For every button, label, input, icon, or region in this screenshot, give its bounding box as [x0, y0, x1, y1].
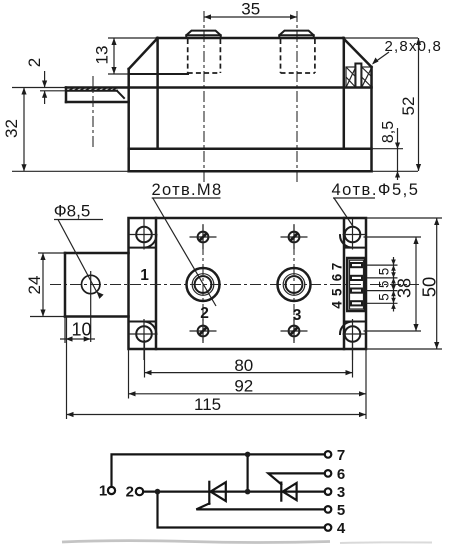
thyristor VS1	[209, 482, 226, 504]
right flange line	[343, 218, 346, 349]
svg-text:1: 1	[140, 267, 149, 284]
svg-text:3: 3	[293, 307, 302, 324]
pin 4 (top view)	[351, 301, 362, 305]
svg-text:1: 1	[99, 483, 107, 500]
terminal 3	[325, 484, 345, 501]
pin 5 (top view)	[351, 289, 362, 293]
svg-text:38: 38	[395, 278, 415, 298]
thyristor VS2	[281, 483, 296, 501]
svg-text:4отв.Ф5,5: 4отв.Ф5,5	[332, 181, 420, 199]
right chamfer	[343, 38, 372, 149]
mounting hole bottom-left	[129, 319, 158, 360]
terminal tab 1 (side view)	[12, 88, 129, 103]
vertical centerline hole 2	[202, 224, 204, 344]
tab hole centerline (side view)	[92, 76, 94, 150]
svg-text:7: 7	[337, 447, 345, 464]
M8 terminal hole 3	[278, 268, 311, 301]
terminal 1	[99, 483, 115, 500]
terminal 6	[325, 466, 345, 483]
mounting hole top-right	[343, 219, 366, 250]
terminal 5	[325, 502, 345, 519]
control pin block (top view)	[347, 258, 365, 311]
centerline terminal 2	[203, 11, 205, 182]
node terminal 4 junction	[155, 489, 161, 495]
left chamfer	[129, 38, 158, 149]
pin 6 (top view)	[351, 276, 362, 280]
label Ф8,5 with leader	[54, 202, 104, 299]
dim 52	[399, 38, 421, 171]
svg-text:52: 52	[399, 97, 418, 116]
pin 7 (top view)	[351, 263, 362, 267]
module internal deck line	[129, 86, 372, 89]
node bus junction	[245, 489, 251, 495]
labels 4 5 6 7	[330, 263, 345, 309]
corner pad bottom-left	[129, 322, 157, 335]
svg-text:24: 24	[25, 276, 44, 295]
svg-text:115: 115	[194, 395, 221, 414]
wire gate VS2 to terminal 6	[268, 473, 324, 484]
svg-text:5: 5	[330, 288, 345, 296]
pin insulator left (hatched)	[346, 67, 356, 88]
label 1	[140, 267, 149, 284]
terminal 7	[325, 447, 345, 464]
tab hole Ф8,5	[82, 271, 100, 342]
label 2	[200, 305, 209, 322]
svg-text:4: 4	[330, 301, 345, 309]
corner pad bottom-right	[340, 322, 366, 335]
body top surface	[108, 37, 418, 40]
baseplate seam	[129, 147, 403, 150]
dim 80	[145, 340, 353, 378]
terminal 2	[126, 484, 144, 501]
svg-text:35: 35	[241, 0, 260, 19]
svg-text:5: 5	[377, 268, 392, 276]
label 2,8x0,8 with leader	[372, 38, 442, 65]
svg-text:5: 5	[337, 502, 345, 519]
wire terminal 4 branch	[158, 492, 325, 528]
svg-text:6: 6	[337, 466, 345, 483]
wire gate VS1 to terminal 5	[196, 503, 324, 509]
tab hatch marks	[69, 88, 117, 91]
dim 50	[366, 218, 442, 349]
aux pin bottom-right	[281, 319, 308, 343]
svg-text:5: 5	[377, 293, 392, 301]
svg-text:2: 2	[200, 305, 209, 322]
terminal tab 1 (top view)	[30, 253, 129, 317]
svg-text:92: 92	[234, 377, 253, 396]
horizontal centerline	[50, 284, 419, 286]
terminal 4	[325, 520, 346, 537]
svg-text:80: 80	[234, 356, 253, 375]
svg-text:8,5: 8,5	[380, 121, 397, 143]
label 2отв.М8 with leader	[152, 181, 223, 306]
dim 2 (tab thickness)	[25, 58, 47, 104]
corner pad top-right	[340, 235, 366, 248]
hidden hole terminal 3 (dashed)	[281, 39, 315, 73]
M8 terminal hole 2	[187, 268, 220, 301]
control pin (side view)	[355, 64, 361, 88]
svg-text:2: 2	[25, 58, 44, 67]
svg-text:3: 3	[337, 484, 345, 501]
body outline (top view)	[129, 218, 367, 349]
pin insulator right (hatched)	[362, 67, 372, 88]
terminal cap 2 (side view)	[186, 31, 220, 38]
shoulder ledge	[108, 73, 188, 75]
label 4отв.Ф5,5 with leader	[332, 181, 420, 227]
dim 92	[129, 349, 367, 399]
node top rail junction	[245, 452, 251, 458]
module body outline (side view)	[12, 67, 418, 171]
dim 24	[25, 253, 46, 317]
svg-text:2отв.М8: 2отв.М8	[152, 181, 223, 199]
hidden hole terminal 2 (dashed)	[188, 39, 221, 73]
aux pin top-right	[281, 225, 308, 249]
svg-text:Ф8,5: Ф8,5	[54, 202, 91, 221]
svg-text:50: 50	[419, 277, 440, 298]
dim 32	[2, 88, 27, 172]
mounting hole top-left	[129, 219, 158, 250]
terminal cap 3 (side view)	[279, 31, 313, 38]
corner pad top-left	[129, 235, 157, 248]
scan artifact (faint)	[62, 541, 432, 543]
svg-text:2,8x0,8: 2,8x0,8	[385, 38, 443, 55]
aux pin top-left	[190, 225, 217, 249]
svg-text:6: 6	[330, 273, 345, 281]
dim 115	[67, 317, 367, 420]
left flange line	[155, 218, 158, 349]
dim 5 5 5 (pin pitch)	[377, 257, 396, 312]
wire main bus	[143, 491, 325, 493]
svg-text:5: 5	[377, 280, 392, 288]
wire terminal 1 riser and top rail	[112, 454, 325, 487]
mounting hole bottom-right	[343, 319, 366, 360]
dim 10	[60, 317, 95, 344]
svg-text:2: 2	[126, 484, 134, 501]
svg-text:13: 13	[93, 46, 112, 65]
pin pitch extension lines	[367, 265, 398, 303]
label 3	[293, 307, 302, 324]
aux pin bottom-left	[190, 319, 217, 343]
dim 35 (terminal spacing)	[204, 0, 297, 20]
vertical centerline hole 3	[293, 224, 295, 344]
svg-text:32: 32	[2, 119, 21, 138]
dim 13	[93, 38, 117, 74]
wire midpoint drop	[247, 454, 249, 491]
centerline terminal 3	[296, 11, 298, 182]
dim 8,5	[380, 121, 400, 180]
svg-text:10: 10	[71, 320, 91, 340]
svg-text:7: 7	[330, 263, 345, 271]
dim 38	[364, 237, 422, 331]
svg-text:4: 4	[337, 520, 346, 537]
